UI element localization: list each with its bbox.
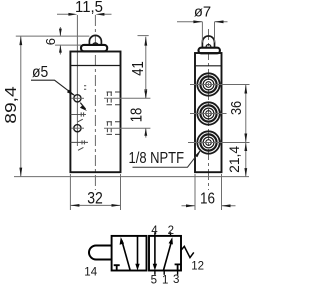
hidden side-port hole 1 (dashed) xyxy=(107,92,120,105)
cap seam line front view xyxy=(70,65,120,67)
svg-text:32: 32 xyxy=(87,189,103,207)
spring return symbol xyxy=(181,246,194,257)
port stub 1 xyxy=(163,271,165,275)
1/8 NPTF label with underline leader xyxy=(129,149,202,167)
port 1 circles (top) xyxy=(197,73,219,95)
port 3 circles (bottom) xyxy=(197,131,219,153)
cap seam line side view xyxy=(195,65,222,67)
dimension 18 xyxy=(104,89,150,138)
hidden side-port hole 2 (dashed) xyxy=(107,122,120,135)
left square diagonal flow arrow (1 to 4) xyxy=(122,241,130,271)
right square blocked port T xyxy=(175,264,181,270)
roller ball front view xyxy=(92,43,98,49)
o5 leader with arrows xyxy=(31,80,87,111)
right square vertical flow arrow (4 to 5) xyxy=(154,236,156,266)
port 2 circles (middle) xyxy=(197,102,219,124)
body rectangle side view xyxy=(195,53,222,172)
hidden vent tick feature upper xyxy=(70,114,86,116)
mounting hole circle 1 (o5) xyxy=(74,95,81,102)
svg-text:16: 16 xyxy=(200,190,215,207)
flange stadium front view xyxy=(81,45,107,51)
port stub 5 xyxy=(154,271,156,275)
roller ball side view xyxy=(206,45,211,50)
dimension 89,4 xyxy=(3,36,89,177)
svg-text:41: 41 xyxy=(130,61,147,76)
svg-text:ø5: ø5 xyxy=(32,64,48,81)
roller actuator stadium xyxy=(89,246,112,260)
svg-text:2: 2 xyxy=(168,225,174,237)
dimension 41 xyxy=(130,36,149,99)
dimension 16 xyxy=(182,174,236,210)
small hidden dashes on left wall xyxy=(84,86,86,90)
port stub 3 xyxy=(177,271,179,275)
mounting hole circle 2 (o5) xyxy=(74,125,81,132)
port stub 2 xyxy=(170,232,172,236)
svg-text:5: 5 xyxy=(151,275,157,287)
dimension 11,5 xyxy=(57,0,112,16)
left square blocked port T xyxy=(114,265,120,270)
svg-text:ø7: ø7 xyxy=(194,4,211,21)
svg-text:36: 36 xyxy=(228,101,245,115)
body rectangle front view xyxy=(70,52,120,173)
port stub 4 xyxy=(154,232,156,236)
dimension o7 xyxy=(177,4,228,43)
svg-text:3: 3 xyxy=(173,274,179,286)
centerline of front view body (dash-dot) xyxy=(94,15,96,190)
hole axis line through mounting holes xyxy=(76,15,78,146)
flange stadium side view xyxy=(199,48,220,54)
svg-text:21,4: 21,4 xyxy=(226,146,242,173)
svg-text:1: 1 xyxy=(162,275,168,287)
valve box left square xyxy=(112,236,147,271)
centerline of side view (dash-dot) xyxy=(208,29,210,190)
hidden pilot vent centerline at left edge xyxy=(70,141,88,143)
left square vertical flow arrow (2 to 3) xyxy=(137,236,139,266)
svg-text:14: 14 xyxy=(84,266,97,278)
svg-text:18: 18 xyxy=(129,108,146,123)
valve box right square xyxy=(149,236,181,271)
plunger dome side view xyxy=(202,36,214,48)
plunger dome front view xyxy=(89,35,101,45)
svg-text:1/8 NPTF: 1/8 NPTF xyxy=(129,150,185,167)
svg-text:12: 12 xyxy=(191,261,204,273)
dimension 32 xyxy=(70,174,120,210)
right square diagonal flow arrow (1 to 2) xyxy=(163,241,171,271)
dimension 21,4 xyxy=(226,143,247,177)
baseline extension line under both views xyxy=(14,176,249,178)
dimension 36 xyxy=(228,85,247,143)
svg-text:4: 4 xyxy=(151,225,158,237)
svg-text:89,4: 89,4 xyxy=(3,86,20,124)
dimension 6 xyxy=(43,27,81,55)
svg-text:6: 6 xyxy=(43,38,58,45)
svg-text:11,5: 11,5 xyxy=(75,0,103,16)
